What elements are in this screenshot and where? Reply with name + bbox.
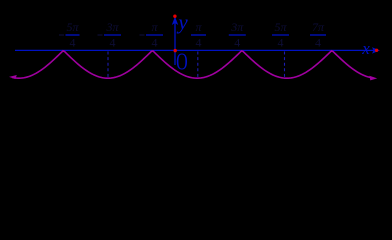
tick label 7π/4	[310, 20, 326, 50]
dashed line at x=-3pi/4	[107, 52, 109, 78]
y-axis	[174, 17, 176, 65]
curve right arrowhead	[369, 76, 377, 81]
svg-text:5π: 5π	[274, 20, 287, 34]
svg-text:π: π	[195, 20, 202, 34]
svg-text:4: 4	[110, 36, 116, 50]
svg-text:3π: 3π	[105, 20, 119, 34]
svg-text:3π: 3π	[230, 20, 244, 34]
svg-text:7π: 7π	[312, 20, 325, 34]
red dot at y-axis tip	[173, 15, 176, 18]
svg-text:5π: 5π	[66, 20, 79, 34]
svg-text:4: 4	[278, 36, 284, 50]
curve y=-|sin(x+pi/4)|	[12, 51, 374, 78]
dashed line at x=5pi/4	[284, 52, 286, 78]
x-axis	[15, 49, 374, 51]
red dot at x-axis tip	[375, 49, 378, 52]
tick label -π/4	[140, 20, 164, 50]
tick label 3π/4	[229, 20, 246, 50]
curve left arrowhead	[9, 75, 17, 79]
tick label -5π/4	[59, 20, 80, 50]
svg-text:y: y	[176, 10, 188, 34]
svg-text:π: π	[151, 20, 158, 34]
svg-text:x: x	[361, 39, 370, 58]
x-axis arrowhead	[372, 47, 380, 53]
red dot at origin	[174, 49, 177, 52]
dashed line at x=pi/4	[197, 52, 199, 78]
svg-text:4: 4	[234, 36, 240, 50]
svg-text:4: 4	[70, 36, 76, 50]
tick label π/4	[191, 20, 206, 50]
tick label -3π/4	[98, 20, 122, 50]
tick label 5π/4	[272, 20, 289, 50]
svg-text:4: 4	[152, 36, 158, 50]
svg-text:O: O	[176, 47, 188, 76]
svg-text:4: 4	[315, 36, 321, 50]
svg-text:4: 4	[196, 36, 202, 50]
y-axis arrowhead	[172, 17, 178, 26]
